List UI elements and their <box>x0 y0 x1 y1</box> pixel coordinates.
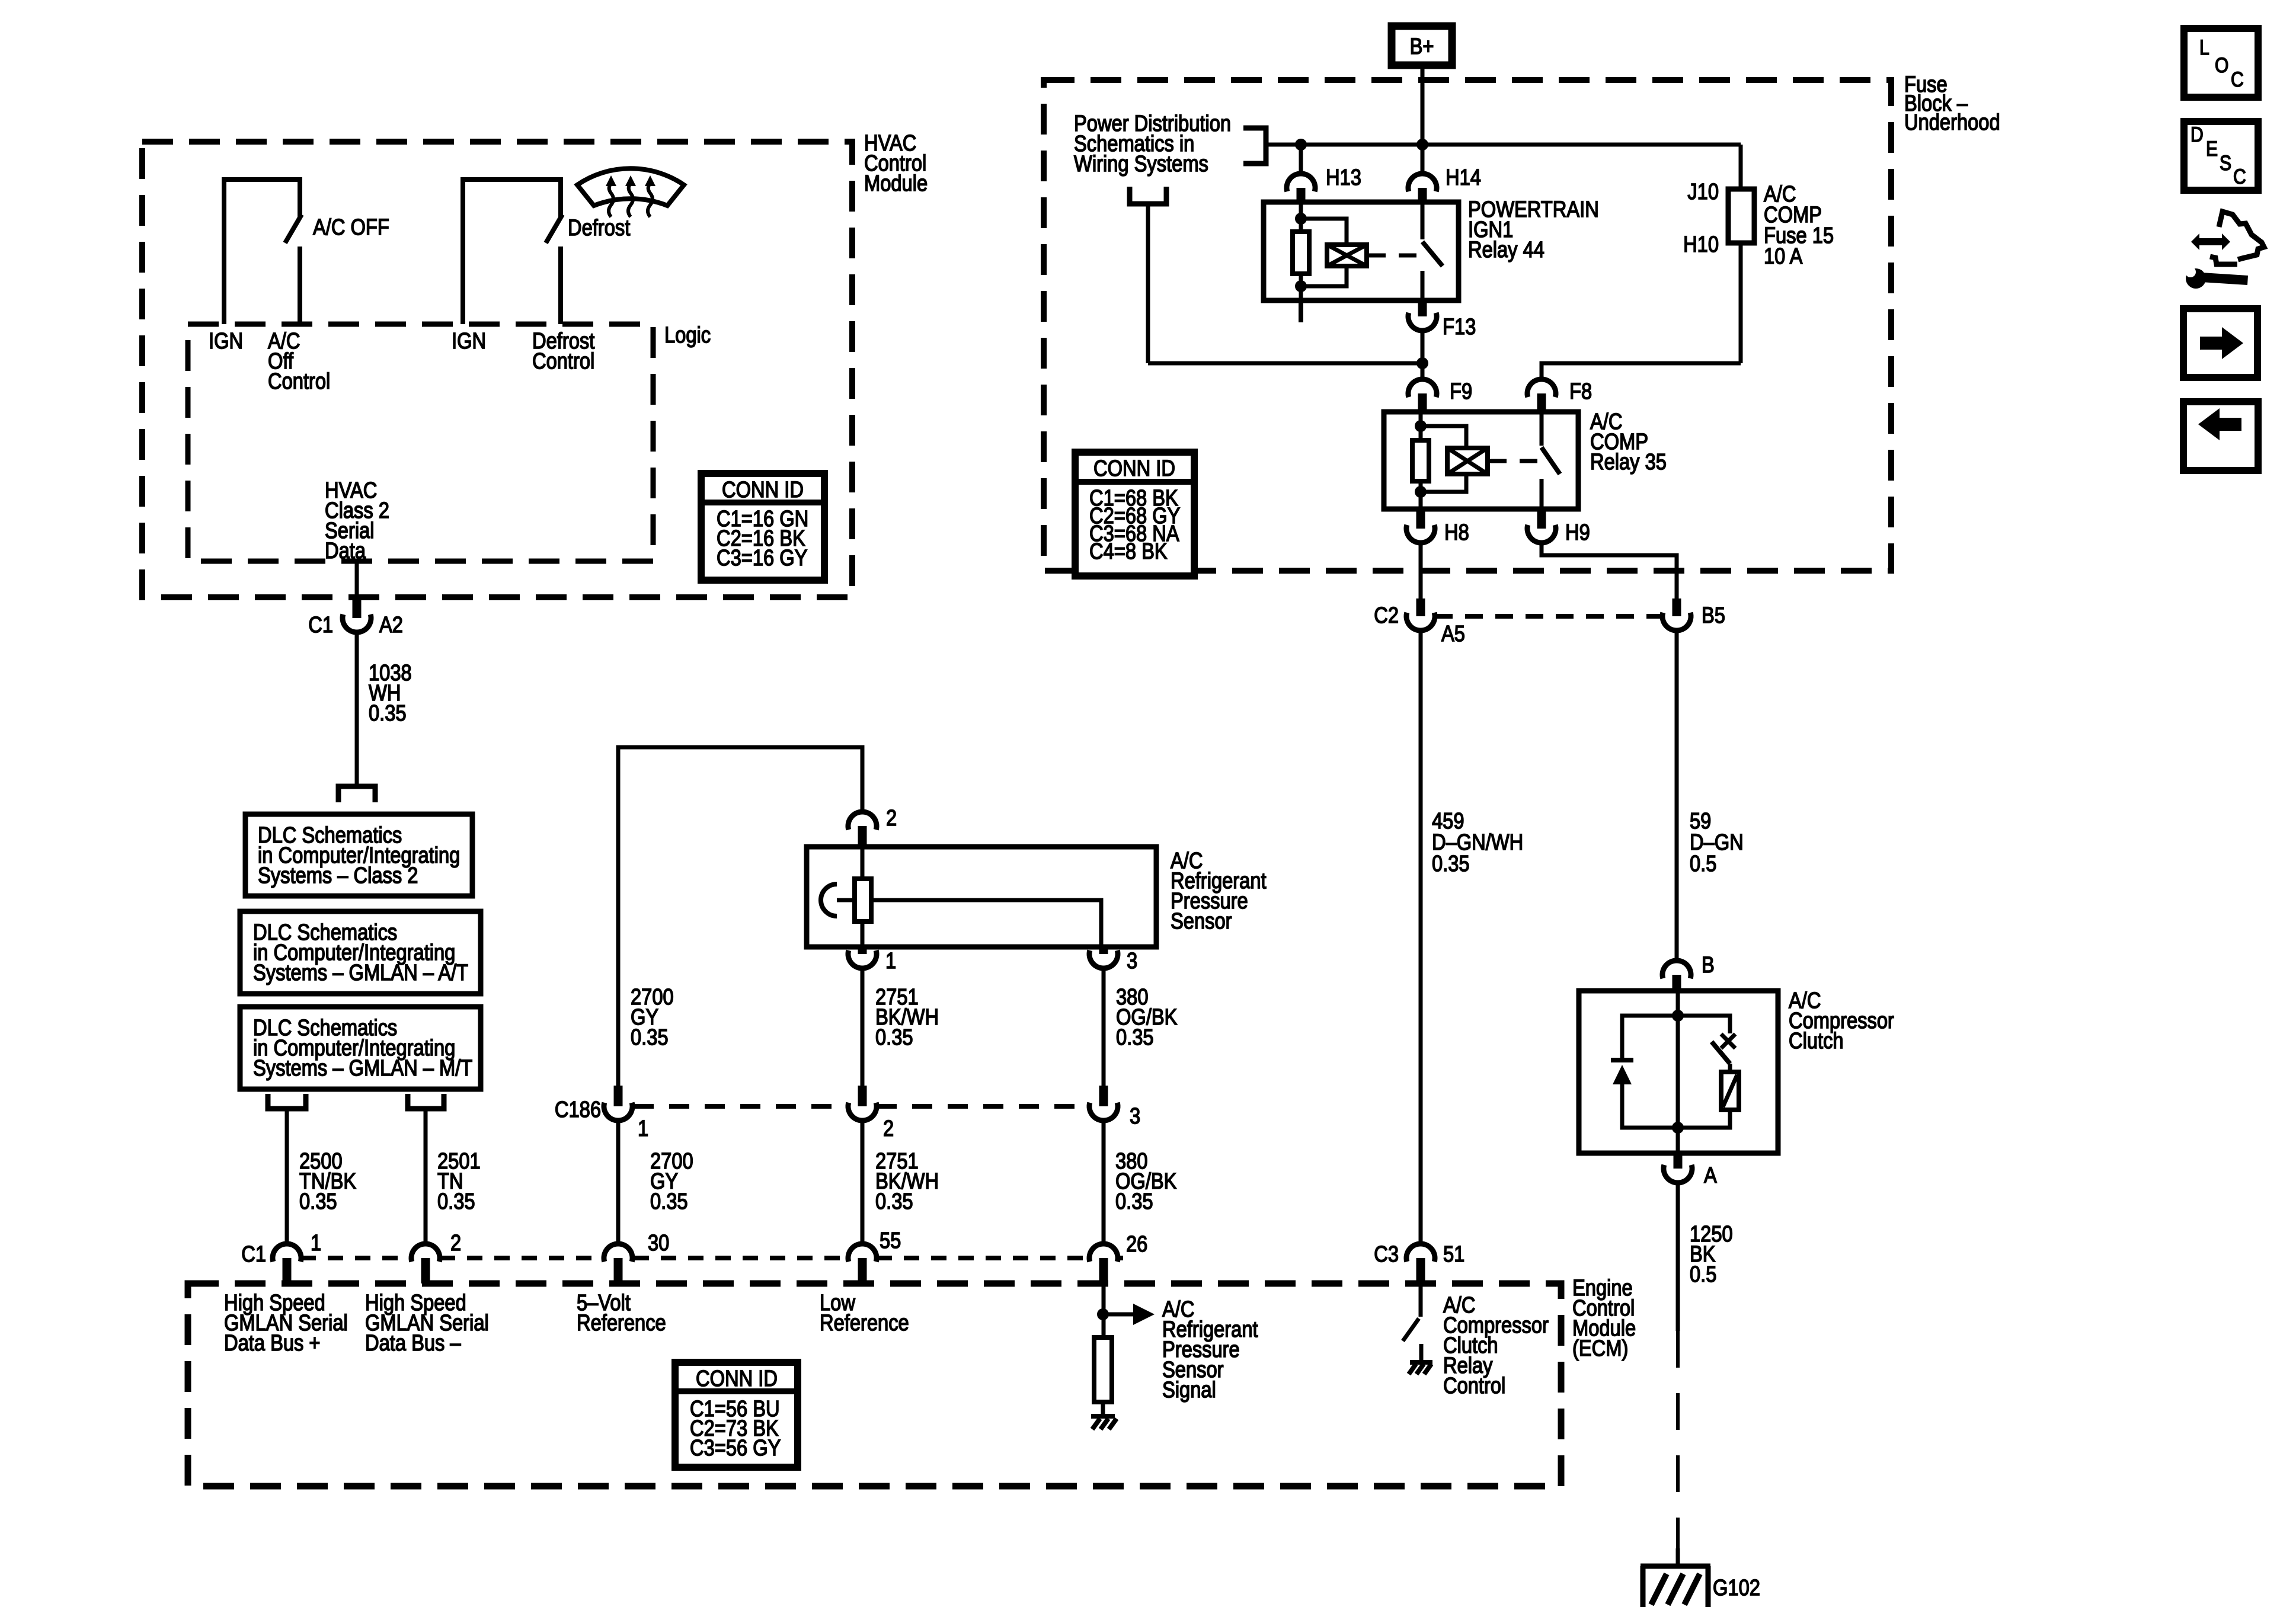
svg-text:CONN ID: CONN ID <box>1093 456 1175 481</box>
svg-text:1: 1 <box>311 1230 321 1256</box>
connector B5 <box>1662 598 1691 630</box>
connector C186 pin 2 <box>848 1086 877 1121</box>
box: DLC Schematics GMLAN M/T <box>240 1007 481 1089</box>
wire: 5-volt reference feed (over to sensor pin 2) <box>618 747 862 1086</box>
in-line connector C186 row <box>634 1104 1089 1109</box>
svg-text:E: E <box>2206 137 2218 161</box>
svg-text:0.35: 0.35 <box>299 1189 337 1214</box>
connector ECM pin 30 <box>604 1244 632 1283</box>
wire: 459 circuit down to C3 <box>1419 630 1423 1244</box>
CONN ID table (ECM) <box>675 1362 798 1467</box>
svg-text:0.35: 0.35 <box>1116 1025 1154 1050</box>
svg-text:0.5: 0.5 <box>1690 1262 1716 1287</box>
connector C2 (A5) <box>1406 598 1435 630</box>
icon: LOC box <box>2184 28 2258 97</box>
svg-text:H10: H10 <box>1683 232 1719 257</box>
svg-text:26: 26 <box>1126 1231 1147 1257</box>
relay: A/C COMP Relay 35 box <box>1384 412 1578 509</box>
svg-text:B+: B+ <box>1410 34 1434 59</box>
svg-text:F9: F9 <box>1450 379 1472 404</box>
svg-text:A5: A5 <box>1441 621 1465 646</box>
HVAC Control Module box <box>142 142 852 597</box>
svg-text:0.35: 0.35 <box>369 700 407 726</box>
icon: DESC box <box>2184 121 2258 190</box>
svg-text:55: 55 <box>880 1228 901 1253</box>
Engine Control Module box <box>188 1283 1561 1486</box>
bracket: power distribution reference <box>1243 128 1266 164</box>
connector A (clutch) <box>1664 1153 1692 1183</box>
relay 44 solenoid loop <box>1301 219 1367 286</box>
wire: 2751 lower <box>861 1121 865 1244</box>
svg-text:F13: F13 <box>1443 314 1476 340</box>
connector H8 <box>1406 509 1435 543</box>
svg-text:IGN: IGN <box>452 328 486 354</box>
svg-text:D: D <box>2191 123 2204 146</box>
wire: low reference (2751) upper <box>861 968 865 1086</box>
svg-text:1: 1 <box>885 948 896 974</box>
svg-text:L: L <box>2199 36 2209 59</box>
connector F8 <box>1527 379 1556 412</box>
box: DLC Schematics GMLAN A/T <box>240 911 481 994</box>
relay 44 actuation dashed link <box>1368 254 1418 258</box>
wire: 1250 circuit to ground <box>1676 1183 1680 1566</box>
svg-text:10 A: 10 A <box>1764 244 1803 269</box>
connector C1/A2 <box>343 597 371 632</box>
ground: sensor signal <box>1091 1416 1117 1429</box>
svg-text:Systems – GMLAN – M/T: Systems – GMLAN – M/T <box>253 1055 472 1081</box>
svg-text:Relay 35: Relay 35 <box>1590 449 1667 475</box>
A/C Refrigerant Pressure Sensor box <box>807 847 1156 947</box>
clutch diode branch <box>1611 1016 1678 1128</box>
connector C3 (51) <box>1406 1244 1435 1286</box>
relay 35 solenoid loop <box>1421 426 1488 492</box>
svg-text:C3=16 GY: C3=16 GY <box>717 545 807 571</box>
svg-text:51: 51 <box>1443 1241 1464 1267</box>
wire: resistor to ground <box>1101 1402 1105 1416</box>
svg-text:IGN: IGN <box>209 328 243 354</box>
connector ECM pin 26 <box>1089 1244 1118 1283</box>
relay 35 switch <box>1542 412 1560 509</box>
sensor: internal wiring + resistor <box>837 847 1101 947</box>
svg-text:C1: C1 <box>308 612 333 638</box>
svg-text:Defrost: Defrost <box>568 215 630 241</box>
svg-text:Underhood: Underhood <box>1904 110 2000 135</box>
svg-text:Logic: Logic <box>664 322 711 348</box>
svg-text:0.35: 0.35 <box>875 1025 913 1050</box>
switch: Defrost <box>463 180 562 324</box>
svg-text:H13: H13 <box>1326 165 1361 190</box>
wire: fuse H10 over to F8 <box>1542 363 1741 379</box>
connector C186 pin 3 <box>1089 1086 1118 1121</box>
svg-text:0.35: 0.35 <box>437 1189 475 1214</box>
relay 44 switch <box>1422 202 1443 300</box>
CONN ID table (HVAC) <box>701 473 824 580</box>
Fuse Block - Underhood box <box>1044 80 1891 571</box>
wire: 2700 lower <box>616 1121 621 1244</box>
connector: sensor pin 2 <box>848 812 877 847</box>
off-page bracket GMLAN bus - <box>408 1094 444 1109</box>
wire: ignition feed to F13 node <box>1146 206 1150 363</box>
CONN ID table (fuse block) <box>1075 452 1194 576</box>
svg-text:Systems – GMLAN – A/T: Systems – GMLAN – A/T <box>253 960 468 985</box>
connector B (clutch) <box>1662 961 1691 991</box>
svg-text:2: 2 <box>886 805 897 831</box>
wire: serial data out of logic box <box>355 561 359 597</box>
svg-text:0.35: 0.35 <box>631 1025 669 1050</box>
svg-text:Data: Data <box>325 538 366 564</box>
wire: H8 down to C2 <box>1419 543 1423 598</box>
svg-text:0.35: 0.35 <box>1115 1189 1153 1214</box>
svg-text:Data Bus +: Data Bus + <box>224 1330 321 1356</box>
svg-text:O: O <box>2215 53 2228 77</box>
relay 35 actuation dashed link <box>1489 459 1538 463</box>
ground G102 <box>1641 1566 1710 1607</box>
svg-text:Module: Module <box>864 171 928 196</box>
icon: vehicle with arrows and wrench <box>2182 212 2264 289</box>
svg-text:G102: G102 <box>1713 1575 1760 1601</box>
A/C Compressor Clutch box <box>1579 991 1778 1153</box>
svg-text:2: 2 <box>450 1230 461 1256</box>
svg-text:30: 30 <box>648 1230 669 1256</box>
svg-text:B: B <box>1702 952 1715 978</box>
svg-text:CONN ID: CONN ID <box>722 477 804 502</box>
svg-text:A: A <box>1704 1163 1717 1188</box>
svg-text:Control: Control <box>268 369 330 394</box>
connector H14 <box>1408 174 1437 202</box>
svg-text:Data Bus –: Data Bus – <box>365 1330 461 1356</box>
svg-text:C4=8 BK: C4=8 BK <box>1089 539 1168 564</box>
svg-text:S: S <box>2220 151 2231 175</box>
wire: supply bus (bracket to fuse) <box>1266 139 1741 151</box>
svg-text:3: 3 <box>1127 948 1137 974</box>
arrow: A/C refrigerant pressure sensor signal <box>1103 1304 1155 1325</box>
off-page bracket to DLC schematics <box>338 786 375 802</box>
svg-text:0.5: 0.5 <box>1690 851 1716 876</box>
ground: relay control (internal) <box>1409 1362 1432 1374</box>
resistor: sensor signal pull-down <box>1094 1337 1112 1402</box>
wire: GMLAN bus + (2500) <box>285 1111 289 1244</box>
icon: forward arrow box <box>2183 309 2257 377</box>
box: DLC Schematics Class 2 <box>245 814 472 896</box>
wire: 1038 circuit <box>355 632 359 786</box>
connector ECM pin 2 <box>411 1244 440 1283</box>
connector ECM pin 55 <box>848 1244 877 1283</box>
svg-text:CONN ID: CONN ID <box>696 1366 778 1391</box>
Logic box <box>188 324 653 561</box>
svg-text:Reference: Reference <box>577 1310 666 1336</box>
svg-text:Wiring Systems: Wiring Systems <box>1074 151 1208 177</box>
sensor: pressure diaphragm symbol <box>821 884 837 916</box>
switch: A/C compressor clutch relay control <box>1403 1286 1421 1362</box>
svg-text:F8: F8 <box>1569 379 1592 404</box>
connector ECM pin 1 (C1) <box>273 1244 301 1283</box>
svg-text:H8: H8 <box>1444 520 1469 545</box>
svg-text:Relay 44: Relay 44 <box>1468 237 1544 263</box>
junction: sensor signal node <box>1097 1283 1109 1337</box>
wire: F13 to F9 with junction <box>1416 331 1428 379</box>
connector F13 <box>1408 300 1437 331</box>
wire: H9 over and down to B5 <box>1542 543 1677 598</box>
defrost indicator icon <box>577 168 684 217</box>
relay: POWERTRAIN IGN1 Relay 44 box <box>1264 202 1459 300</box>
svg-text:C: C <box>2233 165 2246 188</box>
wire: B+ down to bus <box>1421 69 1425 145</box>
svg-text:A2: A2 <box>379 612 403 638</box>
ECM connector row dashed line <box>300 1256 1123 1260</box>
wire: sensor signal (380) upper <box>1102 968 1106 1086</box>
svg-text:C: C <box>2231 68 2244 91</box>
wire: GMLAN bus - (2501) <box>424 1111 428 1244</box>
switch: A/C OFF <box>224 180 302 324</box>
svg-text:C3=56 GY: C3=56 GY <box>690 1435 781 1461</box>
svg-text:Sensor: Sensor <box>1171 908 1232 934</box>
off-page bracket below power distribution <box>1130 187 1166 204</box>
svg-text:Signal: Signal <box>1162 1377 1216 1403</box>
svg-text:(ECM): (ECM) <box>1572 1336 1628 1361</box>
svg-text:Control: Control <box>1443 1373 1505 1398</box>
svg-text:1: 1 <box>638 1116 648 1141</box>
svg-text:Clutch: Clutch <box>1789 1028 1844 1054</box>
svg-text:Reference: Reference <box>820 1310 909 1336</box>
svg-text:A/C OFF: A/C OFF <box>313 215 389 240</box>
svg-text:0.35: 0.35 <box>875 1189 913 1214</box>
connector: sensor pin 3 <box>1089 947 1118 968</box>
svg-text:2: 2 <box>883 1116 894 1141</box>
svg-text:H14: H14 <box>1446 165 1481 190</box>
svg-text:C2: C2 <box>1374 603 1399 628</box>
svg-text:3: 3 <box>1130 1103 1140 1129</box>
connector F9 <box>1408 379 1437 412</box>
connector C186 pin 1 <box>604 1086 632 1121</box>
svg-text:J10: J10 <box>1687 179 1719 204</box>
wire: 59 circuit down to clutch <box>1675 630 1679 958</box>
icon: back arrow box <box>2183 402 2258 470</box>
svg-text:0.35: 0.35 <box>1432 851 1470 876</box>
wire: 380 lower <box>1102 1121 1106 1244</box>
svg-text:H9: H9 <box>1565 520 1590 545</box>
clutch switch + thermal resistor branch <box>1678 1016 1739 1128</box>
off-page bracket GMLAN bus + <box>268 1094 306 1109</box>
wire: H14 tap <box>1421 145 1425 171</box>
relay 35 coil <box>1412 412 1429 509</box>
connector: sensor pin 1 <box>848 947 877 968</box>
relay 44 coil <box>1293 202 1309 322</box>
svg-text:C3: C3 <box>1374 1241 1399 1267</box>
wire: H13 tap <box>1299 145 1303 171</box>
connector H13 <box>1287 174 1315 202</box>
connector row C2/B5 dashed line <box>1435 614 1662 619</box>
svg-text:Control: Control <box>532 348 594 374</box>
svg-text:C1: C1 <box>241 1241 266 1267</box>
connector H9 <box>1527 509 1556 543</box>
svg-text:B5: B5 <box>1702 603 1725 628</box>
svg-text:Systems – Class 2: Systems – Class 2 <box>258 863 418 888</box>
clutch center coil wire <box>1672 991 1684 1153</box>
svg-text:C186: C186 <box>555 1097 601 1122</box>
B+ power feed box <box>1392 26 1452 65</box>
svg-text:0.35: 0.35 <box>650 1189 688 1214</box>
fuse: A/C COMP Fuse 15 (J10/H10) <box>1728 145 1754 363</box>
